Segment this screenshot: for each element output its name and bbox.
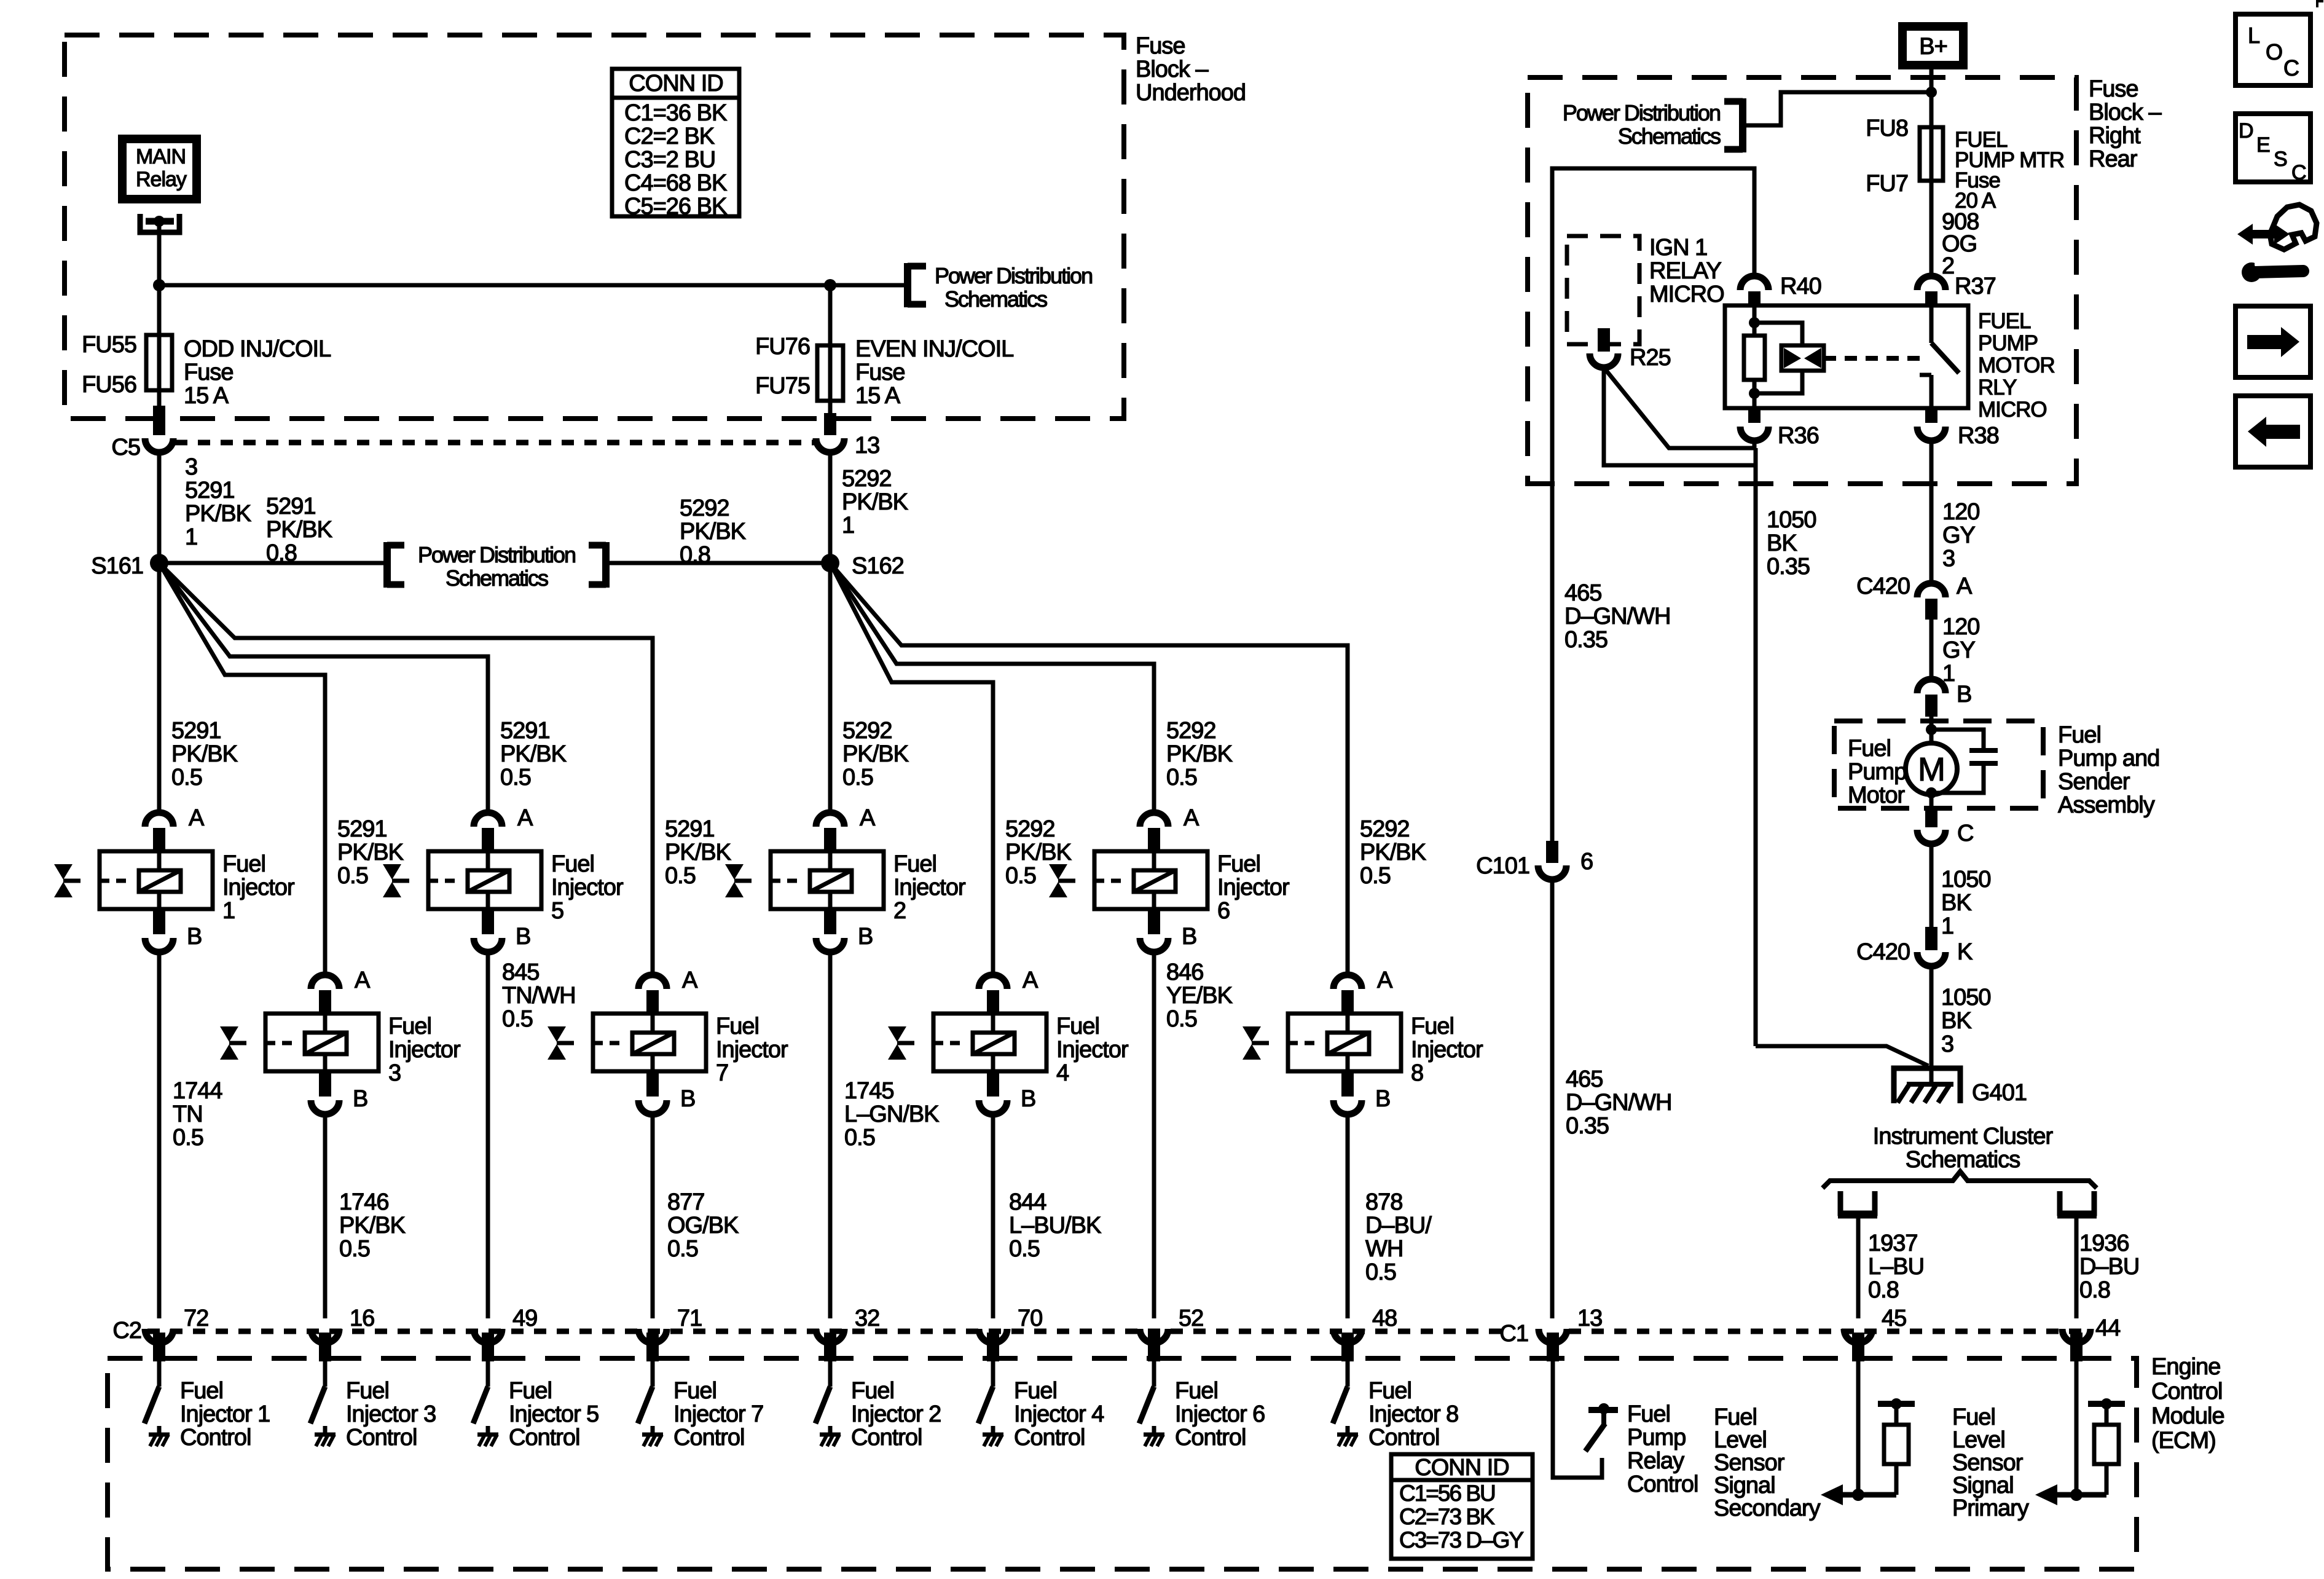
svg-text:ODD INJ/COIL: ODD INJ/COIL bbox=[184, 336, 331, 362]
svg-text:Schematics: Schematics bbox=[1906, 1147, 2020, 1173]
svg-text:5292: 5292 bbox=[842, 466, 892, 492]
wire C420A to pump B bbox=[1929, 620, 1934, 680]
spray symbol injector 2 bbox=[725, 864, 752, 897]
value label FUEL PUMP MTR Fuse 20 A bbox=[1955, 128, 2064, 213]
svg-text:A: A bbox=[1377, 967, 1393, 993]
connector pin C2-32 bbox=[816, 1305, 879, 1343]
label Fuel Injector 4 Control bbox=[1014, 1378, 1104, 1451]
svg-text:K: K bbox=[1957, 939, 1973, 965]
wire injector 8 B to ECM pin bbox=[1346, 1114, 1350, 1318]
svg-text:Fuel: Fuel bbox=[1368, 1378, 1411, 1404]
svg-text:0.8: 0.8 bbox=[2079, 1277, 2110, 1303]
svg-text:PK/BK: PK/BK bbox=[842, 489, 908, 515]
svg-text:FU75: FU75 bbox=[755, 373, 810, 399]
svg-text:PK/BK: PK/BK bbox=[842, 741, 909, 767]
wire label 1746 PK/BK 0.5 bbox=[339, 1189, 406, 1262]
svg-text:3: 3 bbox=[185, 454, 197, 480]
svg-text:S161: S161 bbox=[91, 553, 143, 579]
svg-text:GY: GY bbox=[1942, 637, 1976, 663]
svg-text:R25: R25 bbox=[1630, 345, 1671, 371]
wire fuse FU56 to C5 bbox=[153, 406, 165, 435]
wire 465 path C101 to R40 bbox=[1552, 168, 1754, 841]
splice S162 bbox=[821, 553, 904, 579]
svg-text:5291: 5291 bbox=[171, 718, 221, 744]
fuel injector 3 bbox=[265, 1014, 379, 1071]
label Fuel Injector 7 Control bbox=[673, 1378, 763, 1451]
svg-text:0.5: 0.5 bbox=[1365, 1259, 1396, 1285]
ground (injector 3 driver) bbox=[315, 1426, 336, 1446]
wire label 878 D-BU/WH 0.5 bbox=[1365, 1189, 1432, 1285]
driver switch fuel injector 6 control bbox=[1139, 1387, 1154, 1423]
driver switch fuel injector 3 control bbox=[310, 1387, 325, 1423]
svg-text:7: 7 bbox=[716, 1060, 728, 1086]
svg-text:0.5: 0.5 bbox=[500, 765, 531, 790]
spray symbol injector 3 bbox=[220, 1026, 246, 1060]
svg-text:C4=68 BK: C4=68 BK bbox=[624, 170, 727, 196]
wire pin 52 into ECM bbox=[1148, 1333, 1160, 1387]
svg-text:Fuel: Fuel bbox=[851, 1378, 894, 1404]
connector pin R37 bbox=[1917, 274, 1996, 304]
wire pin 49 into ECM bbox=[482, 1333, 494, 1387]
wire label 5291 feed injector 5 bbox=[500, 718, 567, 790]
svg-text:C3=2 BU: C3=2 BU bbox=[624, 147, 715, 173]
wire injector 7 B to ECM pin bbox=[651, 1114, 655, 1318]
svg-text:5292: 5292 bbox=[842, 718, 892, 744]
svg-text:0.5: 0.5 bbox=[337, 863, 368, 889]
wire pin 32 into ECM bbox=[824, 1333, 836, 1387]
connector pin C2-52 bbox=[1140, 1305, 1203, 1343]
svg-text:Control: Control bbox=[509, 1425, 580, 1451]
driver switch fuel pump relay control bbox=[1585, 1403, 1618, 1451]
pin B of fuel injector 4 bbox=[979, 1071, 1035, 1114]
svg-text:0.35: 0.35 bbox=[1564, 627, 1608, 653]
svg-text:Fuel: Fuel bbox=[1014, 1378, 1057, 1404]
svg-text:Injector 3: Injector 3 bbox=[346, 1401, 436, 1427]
svg-text:B: B bbox=[1182, 924, 1196, 950]
svg-text:OG/BK: OG/BK bbox=[667, 1213, 739, 1238]
svg-text:Control: Control bbox=[180, 1425, 251, 1451]
wire injector 4 B to ECM pin bbox=[991, 1114, 995, 1318]
svg-text:Control: Control bbox=[1175, 1425, 1246, 1451]
power symbol B+ bbox=[1902, 26, 1963, 65]
svg-text:Fuel: Fuel bbox=[551, 851, 594, 877]
svg-text:Sensor: Sensor bbox=[1714, 1450, 1785, 1476]
pin label FU75 bbox=[755, 373, 810, 399]
svg-text:0.5: 0.5 bbox=[1166, 1006, 1197, 1032]
svg-text:4: 4 bbox=[1056, 1060, 1069, 1086]
value label EVEN INJ/COIL Fuse 15 A bbox=[855, 336, 1013, 409]
svg-text:TN: TN bbox=[173, 1101, 203, 1127]
svg-text:2: 2 bbox=[1942, 253, 1954, 279]
svg-text:32: 32 bbox=[855, 1305, 879, 1331]
svg-text:Injector 4: Injector 4 bbox=[1014, 1401, 1104, 1427]
svg-text:52: 52 bbox=[1179, 1305, 1203, 1331]
svg-text:Injector 5: Injector 5 bbox=[509, 1401, 599, 1427]
ground (injector 7 driver) bbox=[642, 1426, 663, 1446]
svg-text:0.5: 0.5 bbox=[1360, 863, 1391, 889]
svg-text:A: A bbox=[1184, 805, 1199, 831]
svg-text:Injector: Injector bbox=[1217, 875, 1290, 900]
svg-text:PK/BK: PK/BK bbox=[185, 501, 251, 527]
svg-text:C2: C2 bbox=[112, 1318, 141, 1344]
connector pin 44 bbox=[2095, 1315, 2121, 1341]
svg-text:6: 6 bbox=[1580, 849, 1593, 875]
pin B of fuel injector 7 bbox=[638, 1071, 695, 1114]
wire pin 16 into ECM bbox=[319, 1333, 331, 1387]
svg-text:Pump and: Pump and bbox=[2058, 746, 2159, 771]
svg-text:Pump: Pump bbox=[1627, 1425, 1686, 1451]
label Fuel Injector 5 Control bbox=[509, 1378, 599, 1451]
wire C to C420 K bbox=[1929, 844, 1934, 950]
icon next-page arrow bbox=[2236, 306, 2310, 377]
wire label 908 OG 2 bbox=[1942, 209, 1979, 279]
spray symbol injector 4 bbox=[888, 1026, 914, 1060]
junction dot node below MAIN relay bbox=[153, 279, 165, 291]
svg-text:BK: BK bbox=[1941, 1008, 1971, 1034]
wire pin 70 into ECM bbox=[987, 1333, 999, 1387]
connector pin C5 bbox=[111, 435, 173, 460]
svg-text:Power Distribution: Power Distribution bbox=[418, 542, 575, 567]
svg-text:Right: Right bbox=[2089, 123, 2141, 149]
svg-text:BK: BK bbox=[1767, 530, 1797, 556]
pin B of fuel injector 8 bbox=[1333, 1071, 1390, 1114]
svg-text:Power Distribution: Power Distribution bbox=[935, 263, 1092, 288]
svg-text:465: 465 bbox=[1564, 580, 1601, 606]
svg-text:E: E bbox=[2256, 133, 2270, 157]
signal arrow (Secondary) bbox=[1821, 1484, 1896, 1505]
svg-text:5292: 5292 bbox=[1166, 718, 1216, 744]
wire label 877 OG/BK 0.5 bbox=[667, 1189, 739, 1262]
label Fuel Injector 4 bbox=[1056, 1014, 1129, 1086]
pin B of fuel injector 2 bbox=[816, 909, 873, 952]
ground G401 bbox=[1894, 1068, 2027, 1106]
connector pin R36 bbox=[1740, 408, 1819, 449]
relay switch contact bbox=[1920, 305, 1959, 408]
svg-text:0.5: 0.5 bbox=[844, 1125, 875, 1151]
relay fuel pump motor RLY MICRO box bbox=[1725, 305, 1968, 408]
svg-text:16: 16 bbox=[350, 1305, 374, 1331]
svg-text:MICRO: MICRO bbox=[1649, 282, 1724, 307]
svg-text:49: 49 bbox=[512, 1305, 537, 1331]
svg-text:MAIN: MAIN bbox=[136, 145, 186, 168]
svg-text:(ECM): (ECM) bbox=[2151, 1428, 2216, 1454]
svg-text:PK/BK: PK/BK bbox=[171, 741, 238, 767]
svg-text:D: D bbox=[2239, 119, 2253, 143]
connector pin B (pump) bbox=[1917, 679, 1971, 717]
spray symbol injector 6 bbox=[1049, 864, 1075, 897]
wire pin 71 into ECM bbox=[646, 1333, 659, 1387]
svg-text:C3=73 D–GY: C3=73 D–GY bbox=[1399, 1527, 1523, 1553]
svg-text:Signal: Signal bbox=[1952, 1473, 2014, 1498]
wire label 3 5291 PK/BK 1 bbox=[185, 454, 251, 550]
pin A of fuel injector 3 bbox=[311, 967, 371, 1012]
svg-text:2: 2 bbox=[893, 898, 906, 924]
pin label FU7 bbox=[1866, 171, 1908, 197]
wire injector 3 B to ECM pin bbox=[323, 1114, 328, 1318]
wire C101 to C1 bbox=[1550, 880, 1555, 1318]
svg-text:B: B bbox=[858, 924, 873, 950]
wire motor to C pin bbox=[1929, 795, 1934, 827]
relay actuator dashed link bbox=[1824, 356, 1927, 361]
driver switch fuel injector 7 control bbox=[638, 1387, 653, 1423]
svg-text:Underhood: Underhood bbox=[1136, 80, 1246, 106]
svg-text:Schematics: Schematics bbox=[446, 565, 548, 591]
svg-text:0.5: 0.5 bbox=[502, 1006, 533, 1032]
svg-text:Sender: Sender bbox=[2058, 769, 2130, 795]
connector line C5-13 dotted bbox=[175, 440, 815, 446]
svg-text:B: B bbox=[1021, 1086, 1035, 1112]
connector pin C2-70 bbox=[979, 1305, 1042, 1343]
connector pin R40 bbox=[1740, 274, 1821, 304]
fuse FU76/FU75 EVEN INJ/COIL bbox=[817, 345, 843, 401]
connector pin 13 bbox=[816, 433, 879, 459]
pin A of fuel injector 6 bbox=[1140, 805, 1199, 850]
wire label 5291 PK/BK 0.8 bbox=[266, 494, 332, 566]
off-page bracket left (power distribution center) bbox=[387, 542, 404, 588]
svg-text:1050: 1050 bbox=[1767, 507, 1816, 533]
svg-text:S: S bbox=[2274, 148, 2287, 171]
connector pin 45 bbox=[1882, 1305, 1906, 1331]
svg-text:5291: 5291 bbox=[185, 478, 235, 503]
icon LOC box bbox=[2236, 14, 2310, 85]
ground (injector 5 driver) bbox=[477, 1426, 498, 1446]
wire label 5292 feed injector 2 bbox=[842, 718, 909, 790]
svg-text:C: C bbox=[1957, 821, 1973, 846]
svg-text:Injector: Injector bbox=[1056, 1037, 1129, 1063]
connector label C2 bbox=[112, 1318, 141, 1344]
svg-text:Fuel: Fuel bbox=[1952, 1404, 1995, 1430]
svg-text:RLY: RLY bbox=[1978, 376, 2017, 400]
svg-text:Injector: Injector bbox=[716, 1037, 788, 1063]
wire resistor to node (Primary) bbox=[2105, 1464, 2109, 1495]
svg-text:13: 13 bbox=[855, 433, 879, 459]
relay coil resistor bbox=[1744, 305, 1765, 408]
wire label 844 L-BU/BK 0.5 bbox=[1009, 1189, 1101, 1262]
wire S161 fan to injector 3 bbox=[159, 563, 325, 975]
page corner mark bbox=[2317, 1, 2323, 7]
fuel injector 7 bbox=[593, 1014, 706, 1071]
svg-text:Fuel: Fuel bbox=[1411, 1014, 1454, 1039]
svg-text:IGN 1: IGN 1 bbox=[1649, 235, 1707, 261]
label Power Distribution Schematics (underhood) bbox=[935, 263, 1092, 312]
svg-text:PK/BK: PK/BK bbox=[1360, 840, 1426, 865]
svg-text:44: 44 bbox=[2095, 1315, 2121, 1341]
svg-text:Engine: Engine bbox=[2151, 1354, 2220, 1380]
label Fuel Injector 8 Control bbox=[1368, 1378, 1458, 1451]
pin B of fuel injector 6 bbox=[1140, 909, 1196, 952]
fuel injector 4 bbox=[933, 1014, 1046, 1071]
fuse block underhood boundary bbox=[65, 35, 1124, 419]
svg-text:C1=56 BU: C1=56 BU bbox=[1399, 1481, 1495, 1506]
svg-text:Schematics: Schematics bbox=[1618, 124, 1721, 149]
spray symbol injector 5 bbox=[383, 864, 409, 897]
wire label 1937 L-BU 0.8 bbox=[1868, 1231, 1924, 1303]
svg-text:Fuel: Fuel bbox=[716, 1014, 759, 1039]
pin A of fuel injector 5 bbox=[474, 805, 533, 850]
connector pin C2-72 bbox=[145, 1305, 208, 1343]
svg-text:3: 3 bbox=[1942, 546, 1955, 572]
wire bracket to B+ node bbox=[1743, 92, 1931, 125]
svg-text:Power Distribution: Power Distribution bbox=[1563, 100, 1720, 125]
driver switch fuel injector 5 control bbox=[473, 1387, 488, 1423]
connector pin C1-13 bbox=[1539, 1305, 1602, 1343]
wire cluster to pin 44 bbox=[2075, 1216, 2079, 1318]
spray symbol injector 8 bbox=[1242, 1026, 1269, 1060]
svg-text:3: 3 bbox=[1941, 1031, 1953, 1057]
wire label 846 YE/BK 0.5 bbox=[1166, 959, 1233, 1032]
svg-text:PK/BK: PK/BK bbox=[680, 519, 746, 545]
svg-text:Assembly: Assembly bbox=[2058, 792, 2155, 818]
svg-text:1: 1 bbox=[222, 898, 235, 924]
svg-text:Injector: Injector bbox=[893, 875, 966, 900]
svg-text:6: 6 bbox=[1217, 898, 1230, 924]
label Fuel Injector 1 bbox=[222, 851, 295, 924]
svg-text:Control: Control bbox=[673, 1425, 745, 1451]
fuel injector 6 bbox=[1094, 851, 1207, 909]
svg-text:45: 45 bbox=[1882, 1305, 1906, 1331]
svg-text:Secondary: Secondary bbox=[1714, 1495, 1821, 1521]
svg-text:72: 72 bbox=[184, 1305, 208, 1331]
label Fuel Injector 3 bbox=[388, 1014, 461, 1086]
svg-text:PUMP: PUMP bbox=[1978, 331, 2038, 355]
svg-text:C2=73 BK: C2=73 BK bbox=[1399, 1504, 1495, 1529]
svg-text:1: 1 bbox=[842, 513, 854, 538]
svg-text:C5: C5 bbox=[111, 435, 140, 460]
svg-text:0.5: 0.5 bbox=[1005, 863, 1036, 889]
svg-text:5291: 5291 bbox=[500, 718, 550, 744]
svg-text:B: B bbox=[187, 924, 202, 950]
off-page bracket (right rear) bbox=[1724, 98, 1743, 152]
svg-text:5292: 5292 bbox=[1360, 816, 1410, 842]
pin A of fuel injector 1 bbox=[145, 805, 205, 850]
svg-text:Injector 7: Injector 7 bbox=[673, 1401, 763, 1427]
svg-text:5: 5 bbox=[551, 898, 563, 924]
wire label 5291 feed injector 3 bbox=[337, 816, 404, 889]
svg-text:G401: G401 bbox=[1972, 1080, 2027, 1106]
svg-text:1050: 1050 bbox=[1941, 867, 1991, 892]
wire S161 fan to injector 7 bbox=[159, 563, 653, 975]
svg-text:844: 844 bbox=[1009, 1189, 1046, 1215]
fuel injector 5 bbox=[428, 851, 541, 909]
svg-text:Injector: Injector bbox=[1411, 1037, 1483, 1063]
wire label 120 GY 3 bbox=[1942, 499, 1979, 572]
wire bus to fuse FU55 bbox=[157, 285, 162, 406]
wire injector 1 B to ECM pin bbox=[157, 952, 162, 1318]
svg-text:D–BU/: D–BU/ bbox=[1365, 1213, 1432, 1238]
svg-text:120: 120 bbox=[1942, 614, 1979, 640]
svg-text:8: 8 bbox=[1411, 1060, 1423, 1086]
label Fuel Level Sensor Signal Secondary bbox=[1714, 1404, 1821, 1521]
svg-text:Fuse: Fuse bbox=[2089, 76, 2138, 102]
pin label FU56 bbox=[82, 372, 136, 398]
wire 1050 to G401 bbox=[1756, 1046, 1928, 1066]
svg-text:M: M bbox=[1918, 751, 1945, 788]
svg-text:A: A bbox=[682, 967, 698, 993]
spray symbol injector 1 bbox=[54, 864, 80, 897]
wire fuse FU75 to pin 13 bbox=[824, 413, 836, 435]
svg-text:Injector 6: Injector 6 bbox=[1175, 1401, 1265, 1427]
svg-text:1937: 1937 bbox=[1868, 1231, 1918, 1256]
label Fuel Injector 2 bbox=[893, 851, 966, 924]
label Fuse Block - Underhood bbox=[1136, 33, 1246, 106]
wire label 1050 BK 0.35 bbox=[1767, 507, 1816, 580]
svg-text:Fuel: Fuel bbox=[1714, 1404, 1757, 1430]
svg-text:Control: Control bbox=[1014, 1425, 1085, 1451]
svg-text:Fuel: Fuel bbox=[388, 1014, 431, 1039]
svg-text:D–GN/WH: D–GN/WH bbox=[1566, 1090, 1671, 1116]
junction dot B+ node bbox=[1926, 87, 1937, 98]
wire B to motor bbox=[1929, 717, 1934, 744]
svg-text:S162: S162 bbox=[852, 553, 904, 579]
driver switch fuel injector 2 control bbox=[815, 1387, 830, 1423]
connector pin 44 cup bbox=[2062, 1329, 2090, 1343]
connector line C2-C1 dotted bbox=[147, 1329, 2090, 1334]
svg-text:Fuel: Fuel bbox=[893, 851, 936, 877]
wire S162 fan to injector 6 bbox=[830, 563, 1154, 813]
label Engine Control Module (ECM) bbox=[2151, 1354, 2224, 1454]
svg-text:0.5: 0.5 bbox=[339, 1236, 370, 1262]
wire resistor to node (Secondary) bbox=[1894, 1464, 1899, 1495]
svg-text:Fuse: Fuse bbox=[1136, 33, 1185, 59]
svg-text:B: B bbox=[353, 1086, 367, 1112]
svg-text:1745: 1745 bbox=[844, 1078, 894, 1104]
svg-text:0.5: 0.5 bbox=[665, 863, 696, 889]
svg-text:877: 877 bbox=[667, 1189, 704, 1215]
connector C420 A bbox=[1856, 573, 1973, 620]
connector pin C (pump) bbox=[1917, 821, 1973, 846]
fuse FU55/FU56 ODD INJ/COIL bbox=[146, 335, 172, 390]
pin A of fuel injector 4 bbox=[979, 967, 1038, 1012]
svg-text:Fuel: Fuel bbox=[1175, 1378, 1218, 1404]
svg-text:Block –: Block – bbox=[1136, 57, 1209, 82]
wire S162 fan to injector 8 bbox=[830, 563, 1348, 975]
svg-text:FU55: FU55 bbox=[82, 332, 136, 358]
connector pin C2-49 bbox=[474, 1305, 537, 1343]
label Fuel Level Sensor Signal Primary bbox=[1952, 1404, 2029, 1521]
label Fuel Injector 8 bbox=[1411, 1014, 1483, 1086]
svg-text:A: A bbox=[860, 805, 876, 831]
svg-text:MICRO: MICRO bbox=[1978, 398, 2047, 422]
wire S162 to injector 2 bbox=[828, 563, 833, 813]
svg-text:Injector 2: Injector 2 bbox=[851, 1401, 941, 1427]
svg-text:Module: Module bbox=[2151, 1403, 2224, 1429]
svg-text:Fuel: Fuel bbox=[673, 1378, 716, 1404]
svg-text:5291: 5291 bbox=[337, 816, 387, 842]
svg-text:R37: R37 bbox=[1955, 274, 1996, 299]
wire injector 5 B to ECM pin bbox=[486, 952, 490, 1318]
svg-text:Fuse: Fuse bbox=[184, 360, 233, 385]
svg-text:0.8: 0.8 bbox=[1868, 1277, 1899, 1303]
icon wrench and arrows bbox=[2237, 205, 2317, 282]
svg-text:Fuel: Fuel bbox=[2058, 722, 2101, 748]
svg-text:Injector: Injector bbox=[222, 875, 295, 900]
svg-text:846: 846 bbox=[1166, 959, 1203, 985]
pin A of fuel injector 7 bbox=[638, 967, 698, 1012]
wire label 5291 feed injector 7 bbox=[665, 816, 731, 889]
ground (injector 4 driver) bbox=[983, 1426, 1003, 1446]
svg-text:Fuel: Fuel bbox=[1627, 1401, 1670, 1427]
instrument cluster connector right bbox=[2057, 1191, 2097, 1216]
svg-text:PK/BK: PK/BK bbox=[665, 840, 731, 865]
svg-text:5292: 5292 bbox=[1005, 816, 1055, 842]
connector-id table CONN ID (ECM) bbox=[1391, 1454, 1533, 1559]
svg-text:Injector: Injector bbox=[551, 875, 624, 900]
pin B of fuel injector 5 bbox=[474, 909, 530, 952]
svg-text:48: 48 bbox=[1372, 1305, 1397, 1331]
wire label 5292 feed injector 8 bbox=[1360, 816, 1426, 889]
svg-text:465: 465 bbox=[1566, 1066, 1603, 1092]
wire R25 to R36 bbox=[1604, 368, 1754, 448]
